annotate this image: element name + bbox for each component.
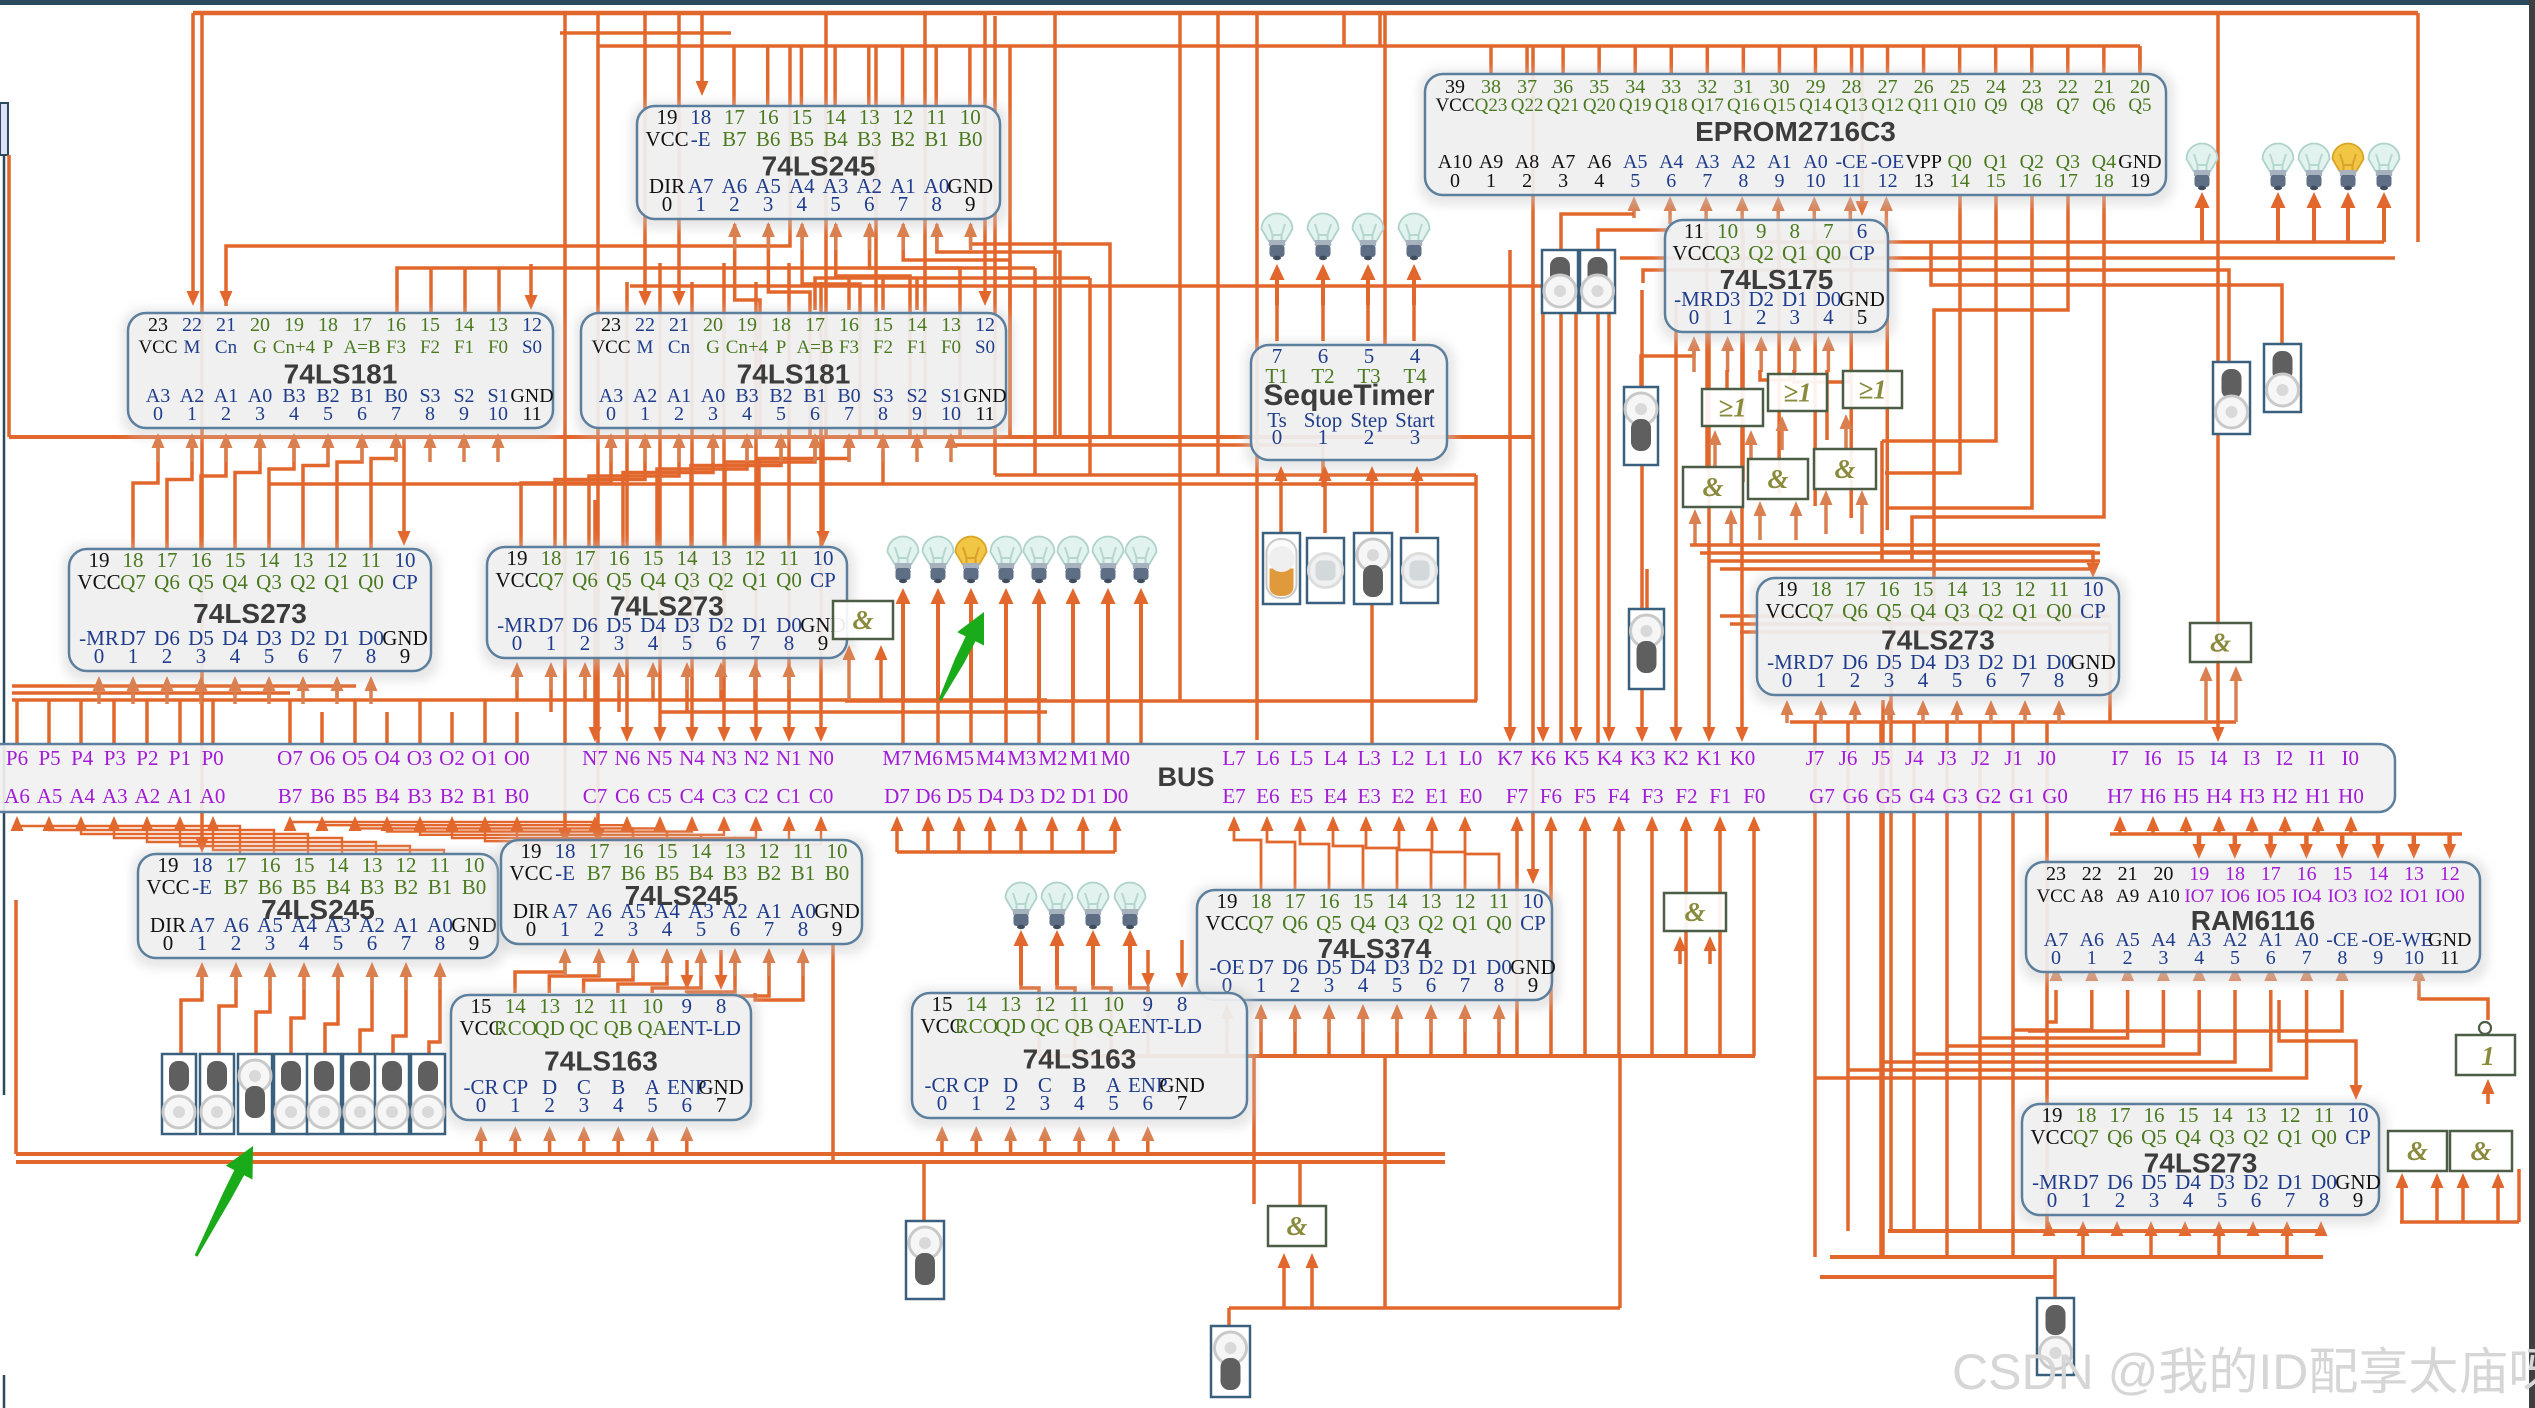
svg-text:3: 3 — [265, 931, 276, 955]
svg-text:CP: CP — [2345, 1125, 2371, 1149]
svg-text:14: 14 — [825, 105, 847, 129]
svg-text:18: 18 — [1251, 889, 1272, 913]
wire bus H2 read — [2283, 826, 2287, 834]
svg-text:B1: B1 — [472, 784, 497, 808]
pin arrow 245A 3 — [268, 973, 272, 990]
svg-text:&: & — [852, 605, 873, 635]
svg-text:3: 3 — [1410, 425, 1421, 449]
wire bus E5 read — [1300, 820, 1329, 890]
pin arrow G1 b — [879, 656, 883, 700]
wire 245A A4 to switch — [291, 975, 304, 1054]
svg-text:F0: F0 — [941, 337, 961, 358]
wire bulb M3 column — [1037, 600, 1041, 701]
wire bus C3 read — [701, 822, 724, 840]
pin arrow 273L 7 — [335, 687, 339, 704]
switch SB7 — [411, 1054, 445, 1134]
svg-text:-E: -E — [691, 127, 711, 151]
svg-text:G: G — [706, 337, 720, 358]
svg-text:IO4: IO4 — [2292, 886, 2322, 907]
svg-text:0: 0 — [1272, 425, 1283, 449]
svg-text:5: 5 — [2230, 947, 2240, 969]
svg-text:L1: L1 — [1425, 746, 1448, 770]
svg-text:A3: A3 — [102, 784, 128, 808]
wire 245B A6 down — [549, 958, 599, 993]
svg-text:2: 2 — [2123, 947, 2133, 969]
svg-text:18: 18 — [541, 546, 562, 570]
svg-text:10: 10 — [2083, 577, 2104, 601]
svg-text:2: 2 — [221, 403, 231, 425]
svg-text:7: 7 — [1823, 219, 1834, 243]
svg-text:ENT-LD: ENT-LD — [667, 1016, 741, 1040]
svg-text:E0: E0 — [1459, 784, 1482, 808]
wire bus D5 read — [957, 827, 961, 852]
bulb M3 — [1024, 537, 1055, 565]
svg-text:IO1: IO1 — [2399, 886, 2429, 907]
wire EPROM Q14 drop — [1814, 46, 1818, 74]
svg-text:15: 15 — [471, 994, 492, 1018]
svg-text:M2: M2 — [1038, 746, 1067, 770]
wire RAM IO2 write — [2376, 834, 2381, 850]
svg-text:L6: L6 — [1256, 746, 1279, 770]
svg-text:1: 1 — [197, 931, 208, 955]
svg-text:≥1: ≥1 — [1858, 375, 1886, 405]
svg-text:H4: H4 — [2206, 784, 2232, 808]
pin arrow 245A 2 — [234, 973, 238, 990]
svg-text:4: 4 — [289, 403, 299, 425]
wire H286 long — [630, 284, 1542, 288]
pin arrow 181L 1 — [190, 444, 194, 462]
svg-text:9: 9 — [2353, 1188, 2364, 1212]
chip U16 74LS273 bottom right — [2016, 1100, 2387, 1225]
switch SW3 — [1629, 609, 1664, 689]
switch SB6 — [375, 1054, 409, 1134]
svg-text:A1: A1 — [167, 784, 193, 808]
svg-text:Q10: Q10 — [1943, 95, 1976, 116]
svg-text:B1: B1 — [428, 875, 453, 899]
svg-text:E2: E2 — [1391, 784, 1414, 808]
wire bottom left risers — [14, 900, 18, 1154]
chip U5 74LS175 — [1659, 216, 1896, 342]
svg-text:N7: N7 — [582, 746, 608, 770]
wire and2 in — [1794, 512, 1798, 540]
svg-text:13: 13 — [2404, 863, 2424, 885]
svg-text:M0: M0 — [1101, 746, 1130, 770]
pin arrow 273M 5 — [685, 673, 689, 690]
wire 163L pin0 in — [479, 1136, 483, 1154]
pin arrow 273L 0 — [97, 687, 101, 704]
svg-text:12: 12 — [573, 994, 594, 1018]
svg-text:Q6: Q6 — [154, 570, 180, 594]
wire bulb D0 arrow — [1128, 942, 1132, 985]
svg-text:I4: I4 — [2210, 746, 2228, 770]
svg-text:&: & — [2407, 1136, 2428, 1166]
wire 175 pin4 in — [1827, 347, 1831, 372]
wire 273M D in 7 — [753, 672, 757, 712]
svg-text:Q4: Q4 — [222, 570, 248, 594]
wire 163R pin3 in — [1043, 1136, 1047, 1154]
svg-text:0: 0 — [606, 403, 616, 425]
svg-text:L7: L7 — [1222, 746, 1245, 770]
wire 374 D5 route — [1293, 1016, 1297, 1056]
svg-text:10: 10 — [488, 403, 508, 425]
svg-text:8: 8 — [435, 931, 446, 955]
wire EPROM Q18 drop — [1670, 46, 1674, 74]
wire 175 pin3 in — [1793, 347, 1797, 372]
wire 273L D in 0 — [97, 686, 101, 690]
svg-text:H0: H0 — [2338, 784, 2364, 808]
svg-text:P1: P1 — [169, 746, 191, 770]
pin arrow 245B 3 — [631, 959, 635, 976]
wire bus N6 feed — [625, 282, 629, 730]
svg-text:7: 7 — [1702, 170, 1712, 192]
svg-text:N4: N4 — [679, 746, 705, 770]
pin arrow 245B 1 — [563, 959, 567, 976]
pin arrow 273M 1 — [549, 673, 553, 690]
svg-text:8: 8 — [366, 644, 377, 668]
svg-text:P4: P4 — [71, 746, 94, 770]
svg-text:18: 18 — [2225, 863, 2245, 885]
svg-text:13: 13 — [1914, 170, 1934, 192]
pin arrow 374 1 — [1259, 1015, 1263, 1032]
wire 273M CP drop — [821, 437, 825, 540]
wire 273L D in 3 — [199, 690, 203, 700]
svg-text:1: 1 — [1486, 170, 1496, 192]
svg-text:F6: F6 — [1540, 784, 1562, 808]
wire 163R pin2 in — [1009, 1136, 1013, 1154]
svg-text:3: 3 — [628, 917, 639, 941]
svg-text:QA: QA — [1098, 1014, 1129, 1038]
wire gate bundle lower3 — [1740, 630, 2110, 634]
wire 273M Q5 to 181R — [589, 436, 679, 547]
svg-text:VCC: VCC — [146, 875, 189, 899]
svg-text:2: 2 — [674, 403, 684, 425]
pin arrow 273R 0 — [1785, 711, 1789, 723]
wire bulb D2 col — [1057, 983, 1075, 1056]
svg-text:17: 17 — [805, 314, 825, 336]
wire RAM IO7 write — [2197, 834, 2202, 850]
wire bulb M4 column — [1004, 600, 1008, 701]
wire 163L pin2 in — [548, 1136, 552, 1154]
pin arrow 273R 6 — [1989, 711, 1993, 723]
svg-text:5: 5 — [323, 403, 333, 425]
wire main horizontal trunk y437 — [9, 435, 1533, 439]
svg-text:F5: F5 — [1574, 784, 1596, 808]
svg-text:1: 1 — [510, 1093, 521, 1117]
svg-text:9: 9 — [912, 403, 922, 425]
wire drop x1055 — [1053, 13, 1057, 437]
svg-text:11: 11 — [975, 403, 994, 425]
svg-text:B3: B3 — [407, 784, 432, 808]
svg-text:Q15: Q15 — [1763, 95, 1796, 116]
wire 181L pin21 feed — [226, 46, 790, 306]
svg-text:J2: J2 — [1971, 746, 1990, 770]
wire 245T A5 route — [802, 224, 860, 437]
svg-text:C6: C6 — [615, 784, 640, 808]
wire bus F7 column — [1515, 820, 1519, 1056]
bulb M5 — [956, 537, 987, 565]
svg-text:F1: F1 — [907, 337, 927, 358]
wire 181L F bus — [397, 268, 1035, 313]
svg-text:Q0: Q0 — [1486, 911, 1512, 935]
switch SB5 — [343, 1054, 377, 1134]
svg-text:Q9: Q9 — [1984, 95, 2007, 116]
svg-text:Q22: Q22 — [1511, 95, 1544, 116]
wire gate bundle h4 — [1720, 567, 2095, 571]
svg-text:D4: D4 — [978, 784, 1004, 808]
svg-text:Q3: Q3 — [1384, 911, 1410, 935]
wire 374 D3 route — [1361, 1016, 1365, 1056]
svg-text:0: 0 — [662, 192, 673, 216]
wire 374 D4 route — [1327, 1016, 1331, 1056]
wire right cluster H 270 to SW4 — [1643, 270, 2229, 362]
svg-text:6: 6 — [357, 403, 367, 425]
svg-text:22: 22 — [635, 314, 655, 336]
pin arrow 273L 8 — [369, 687, 373, 704]
pin arrow 273L 4 — [233, 687, 237, 704]
wire 163R pin6 in — [1146, 1136, 1150, 1154]
wire 245B A5 down — [584, 958, 633, 993]
svg-text:7: 7 — [2285, 1188, 2296, 1212]
wire 273L D in 8 — [369, 686, 373, 690]
wire bus D6 read — [926, 827, 930, 852]
wire 245A A1 to switch — [393, 975, 406, 1054]
svg-text:7: 7 — [2020, 668, 2031, 692]
wire and1 in — [1693, 520, 1697, 545]
pin arrow 181L 4 — [292, 444, 296, 462]
switch SW5 — [2264, 344, 2301, 412]
svg-text:&: & — [1834, 454, 1855, 484]
pin arrow 181R 10 — [949, 444, 953, 462]
svg-text:G: G — [253, 337, 267, 358]
svg-text:Q0: Q0 — [2046, 599, 2072, 623]
svg-text:19: 19 — [89, 548, 110, 572]
svg-text:VCC: VCC — [2036, 886, 2075, 907]
pin arrow 374 5 — [1395, 1015, 1399, 1032]
wire J3 column — [1945, 722, 1949, 1257]
pin arrow 245B 7 — [767, 959, 771, 976]
svg-text:IO2: IO2 — [2363, 886, 2393, 907]
wire bulb right col — [2312, 206, 2316, 242]
wire or3 in — [1844, 425, 1848, 448]
svg-text:7: 7 — [391, 403, 401, 425]
svg-text:B0: B0 — [505, 784, 530, 808]
pin arrow 273M 8 — [787, 673, 791, 690]
svg-text:14: 14 — [1950, 170, 1970, 192]
svg-text:J4: J4 — [1905, 746, 1924, 770]
svg-text:12: 12 — [975, 314, 995, 336]
wire 181R pin12 feed — [983, 13, 987, 300]
pin arrow 181L 0 — [156, 444, 160, 462]
wire drop x876 — [874, 46, 878, 437]
wire switch SW12 feed — [2053, 1257, 2057, 1298]
wire J4 column — [1912, 722, 1916, 1231]
svg-text:I1: I1 — [2309, 746, 2327, 770]
wire bus C1 read — [769, 822, 789, 841]
svg-text:N1: N1 — [776, 746, 802, 770]
svg-text:1: 1 — [560, 917, 571, 941]
svg-text:O2: O2 — [439, 746, 465, 770]
svg-text:6: 6 — [730, 917, 741, 941]
AND gate G7 — [1814, 449, 1876, 489]
svg-text:H1: H1 — [2305, 784, 2331, 808]
pin arrow 273L 6 — [301, 687, 305, 704]
pin arrow 273R 7 — [2023, 711, 2027, 723]
svg-text:VCC: VCC — [591, 337, 630, 358]
svg-text:H3: H3 — [2239, 784, 2265, 808]
svg-text:C0: C0 — [809, 784, 834, 808]
wire bus A1 read — [180, 822, 410, 854]
wire 245T A1 route — [937, 224, 1060, 437]
svg-text:M1: M1 — [1070, 746, 1099, 770]
wire 163L LD in — [685, 960, 689, 978]
svg-text:0: 0 — [476, 1093, 487, 1117]
svg-text:18: 18 — [690, 105, 711, 129]
pin arrow 181L 9 — [462, 444, 466, 462]
svg-text:VCC: VCC — [138, 337, 177, 358]
svg-text:0: 0 — [937, 1091, 948, 1115]
svg-text:5: 5 — [1392, 973, 1403, 997]
wire trunk drop 2418 — [2416, 13, 2420, 242]
svg-text:16: 16 — [623, 839, 644, 863]
wire RAM CE feed — [2028, 990, 2342, 1031]
OR gate G4 — [1843, 371, 1902, 408]
svg-text:C1: C1 — [777, 784, 802, 808]
svg-text:F2: F2 — [1675, 784, 1697, 808]
wire 273M Q7 to 181R — [521, 436, 611, 547]
bulb right 1 — [2299, 144, 2330, 172]
wire EPROM col 12 down — [1886, 232, 1890, 530]
svg-text:B5: B5 — [790, 127, 815, 151]
wire 245A A7 to switch — [181, 975, 202, 1054]
pin arrow 245B 5 — [699, 959, 703, 976]
svg-text:A10: A10 — [2147, 886, 2180, 907]
wire bus A4 read — [81, 822, 308, 854]
svg-text:1: 1 — [1722, 305, 1733, 329]
pin arrow 245A 6 — [370, 973, 374, 990]
svg-text:A=B: A=B — [796, 337, 833, 358]
bulb T1 — [1262, 213, 1293, 241]
svg-text:RCO: RCO — [955, 1014, 998, 1038]
svg-text:13: 13 — [362, 853, 383, 877]
svg-text:Q1: Q1 — [2277, 1125, 2303, 1149]
wire bus O3 feed — [418, 700, 422, 744]
svg-text:23: 23 — [2046, 863, 2066, 885]
wire 273L Q0 to 181L — [371, 436, 396, 549]
svg-text:N2: N2 — [744, 746, 770, 770]
pin arrow 273L 1 — [131, 687, 135, 704]
svg-text:2: 2 — [1005, 1091, 1016, 1115]
wire not gate in — [2486, 1090, 2490, 1104]
svg-text:CP: CP — [392, 570, 418, 594]
wire RAM A4 addr — [1947, 990, 2163, 1046]
svg-text:Q2: Q2 — [1748, 241, 1774, 265]
wire 273M D in 2 — [583, 672, 587, 700]
svg-text:Q8: Q8 — [2020, 95, 2043, 116]
switch SW7 button — [1307, 538, 1344, 603]
wire and3 in — [1824, 501, 1828, 534]
svg-text:Q3: Q3 — [1944, 599, 1970, 623]
svg-text:11: 11 — [793, 839, 813, 863]
wire bus K3 feed — [1640, 290, 1644, 730]
svg-text:7: 7 — [844, 403, 854, 425]
svg-text:1: 1 — [2481, 1041, 2495, 1071]
svg-text:D1: D1 — [1071, 784, 1097, 808]
wire bus O0 feed — [515, 712, 519, 744]
svg-text:9: 9 — [1756, 219, 1767, 243]
wire drop x925 — [923, 13, 927, 437]
wire EPROM pin7 in — [1704, 207, 1708, 230]
svg-text:L4: L4 — [1324, 746, 1348, 770]
svg-text:14: 14 — [454, 314, 474, 336]
svg-text:B7: B7 — [722, 127, 747, 151]
svg-text:17: 17 — [575, 546, 596, 570]
svg-text:4: 4 — [648, 631, 659, 655]
wire v1035 — [1033, 268, 1037, 475]
wire J7 column — [1813, 722, 1817, 1257]
switch SW1 pair b — [1580, 250, 1615, 313]
wire 181R F bus — [815, 278, 1090, 310]
wire bus P0 feed — [211, 700, 215, 744]
svg-text:5: 5 — [647, 1093, 658, 1117]
wire 245T -E feed — [700, 13, 704, 90]
wire bus K5 feed — [1574, 270, 1578, 730]
wire bus N5 feed — [658, 263, 662, 730]
switch SB4 — [307, 1054, 341, 1134]
svg-text:Q19: Q19 — [1619, 95, 1652, 116]
svg-text:19: 19 — [507, 546, 528, 570]
svg-text:5: 5 — [1952, 668, 1963, 692]
svg-text:Q5: Q5 — [1316, 911, 1342, 935]
svg-text:19: 19 — [2189, 863, 2209, 885]
wire 273M Q6 to 181R — [555, 436, 645, 547]
wire 163L pin3 in — [582, 1136, 586, 1154]
svg-text:B0: B0 — [958, 127, 983, 151]
wire gate bundle h1 — [1690, 543, 2100, 547]
wire RAM A2 addr — [1881, 990, 2235, 1062]
wire bus I4 feed long vertical — [2216, 13, 2220, 736]
pin arrow 273R 8 — [2057, 711, 2061, 723]
svg-text:F2: F2 — [873, 337, 893, 358]
svg-text:Q3: Q3 — [2209, 1125, 2235, 1149]
svg-text:3: 3 — [1040, 1091, 1051, 1115]
svg-text:S0: S0 — [975, 337, 995, 358]
svg-text:11: 11 — [1069, 992, 1089, 1016]
wire bus K4 feed — [1607, 280, 1611, 730]
svg-text:B4: B4 — [823, 127, 848, 151]
wire bulb right col — [2276, 206, 2280, 242]
svg-text:3: 3 — [579, 1093, 590, 1117]
svg-text:VCC: VCC — [645, 127, 688, 151]
svg-text:6: 6 — [2266, 947, 2276, 969]
svg-text:&: & — [1702, 472, 1723, 502]
wire bus O5 feed — [353, 700, 357, 744]
svg-text:Cn: Cn — [215, 337, 238, 358]
svg-text:Q0: Q0 — [776, 568, 802, 592]
wire bus K6 feed — [1541, 260, 1545, 730]
pin arrow 374 4 — [1361, 1015, 1365, 1032]
AND gate G11 bottom right a — [2388, 1131, 2447, 1171]
wire bus P5 feed — [47, 700, 51, 744]
svg-text:G1: G1 — [2009, 784, 2035, 808]
svg-text:1: 1 — [1256, 973, 1267, 997]
wire 273M D in 4 — [651, 672, 655, 700]
svg-text:M: M — [637, 337, 654, 358]
svg-text:Cn: Cn — [668, 337, 691, 358]
chip U13 RAM6116 — [2020, 858, 2488, 982]
svg-text:F3: F3 — [386, 337, 406, 358]
svg-text:1: 1 — [1318, 425, 1329, 449]
svg-text:4: 4 — [1823, 305, 1834, 329]
